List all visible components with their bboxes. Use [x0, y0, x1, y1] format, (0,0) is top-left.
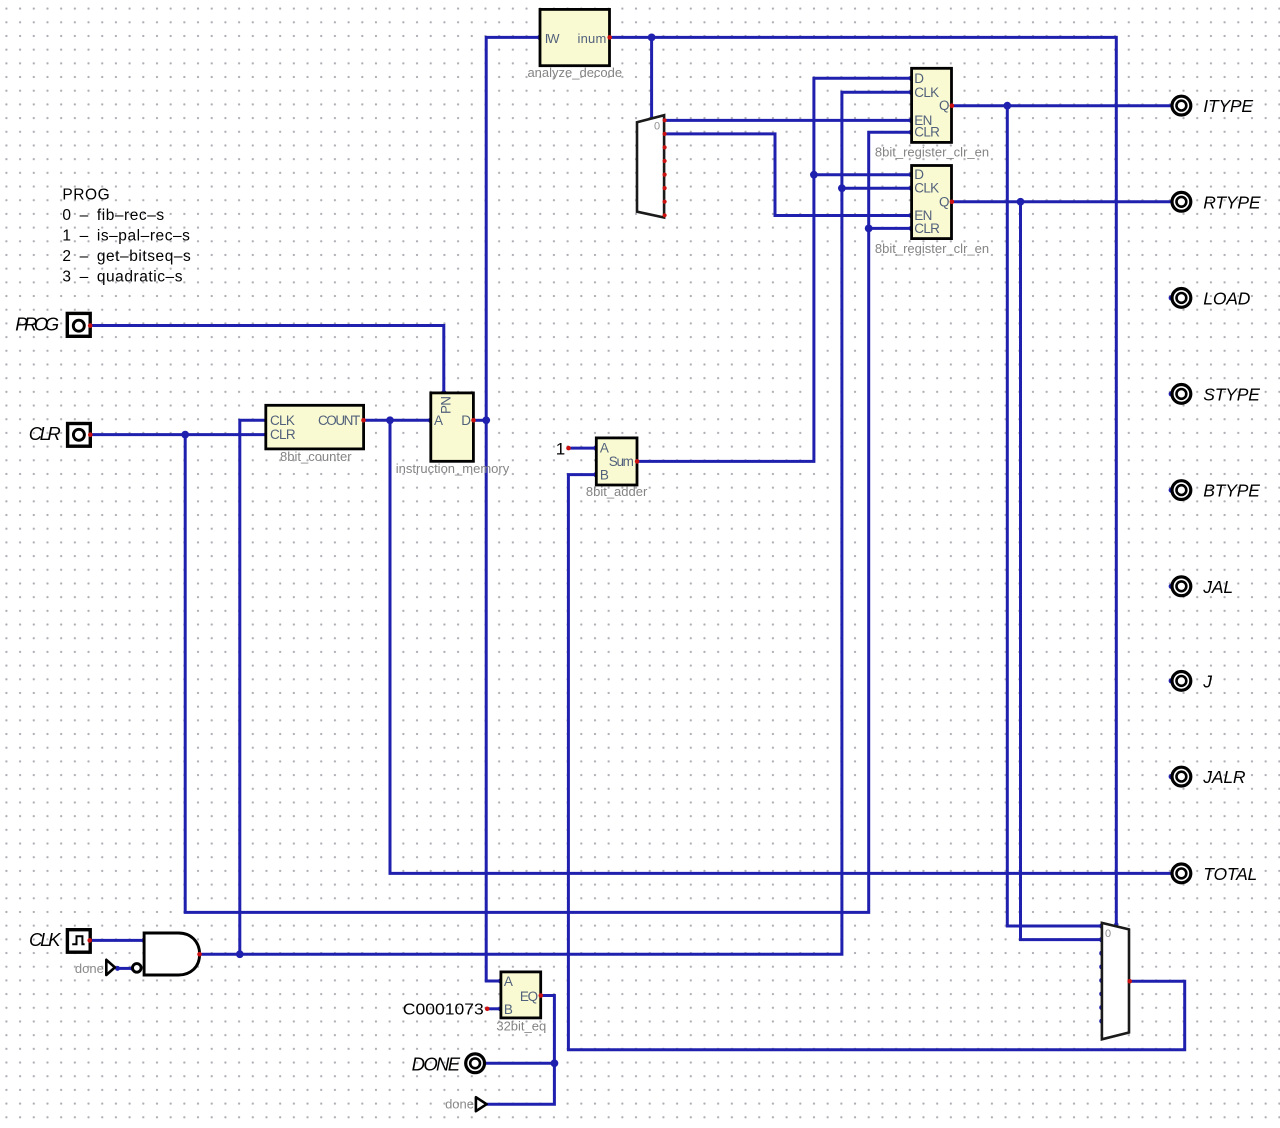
svg-text:RTYPE: RTYPE [1203, 192, 1261, 212]
svg-text:EQ: EQ [520, 989, 538, 1004]
svg-text:CLK: CLK [914, 181, 939, 196]
svg-text:JAL: JAL [1202, 577, 1233, 597]
svg-text:CLK: CLK [29, 929, 62, 950]
svg-text:J: J [1202, 671, 1212, 691]
svg-text:A: A [600, 441, 609, 456]
svg-text:LOAD: LOAD [1203, 288, 1250, 308]
svg-text:8bit_register_clr_en: 8bit_register_clr_en [875, 241, 989, 256]
svg-text:Sum: Sum [609, 454, 634, 469]
svg-text:PROG: PROG [62, 187, 110, 204]
svg-text:1: 1 [556, 439, 565, 458]
svg-text:3 – quadratic–s: 3 – quadratic–s [62, 269, 183, 286]
svg-text:STYPE: STYPE [1203, 384, 1260, 404]
svg-text:Q: Q [939, 194, 949, 209]
svg-text:C0001073: C0001073 [403, 1002, 484, 1019]
svg-text:32bit_eq: 32bit_eq [496, 1018, 546, 1033]
svg-text:8bit_counter: 8bit_counter [280, 449, 352, 464]
svg-text:inum: inum [578, 31, 607, 46]
svg-text:CLR: CLR [914, 125, 940, 140]
svg-text:8bit_register_clr_en: 8bit_register_clr_en [875, 145, 989, 160]
svg-text:COUNT: COUNT [318, 413, 360, 428]
svg-text:IW: IW [545, 31, 561, 46]
svg-text:CLK: CLK [270, 413, 295, 428]
svg-text:0: 0 [1105, 928, 1111, 940]
svg-text:D: D [461, 413, 471, 428]
svg-text:A: A [504, 974, 513, 989]
svg-text:JALR: JALR [1202, 767, 1246, 787]
svg-text:CLR: CLR [914, 221, 940, 236]
svg-text:A: A [434, 413, 443, 428]
svg-text:PROG: PROG [15, 314, 59, 335]
svg-text:CLR: CLR [29, 423, 61, 444]
svg-text:0: 0 [654, 120, 660, 132]
svg-text:1 – is–pal–rec–s: 1 – is–pal–rec–s [62, 227, 190, 244]
svg-text:TOTAL: TOTAL [1203, 864, 1257, 884]
svg-text:CLR: CLR [270, 427, 296, 442]
svg-text:BTYPE: BTYPE [1203, 481, 1260, 501]
svg-text:B: B [504, 1002, 513, 1017]
svg-text:0 – fib–rec–s: 0 – fib–rec–s [62, 207, 164, 224]
svg-text:B: B [600, 467, 609, 482]
svg-text:instruction_memory: instruction_memory [396, 461, 510, 476]
svg-text:Q: Q [939, 98, 949, 113]
svg-text:PN: PN [439, 397, 454, 414]
svg-text:DONE: DONE [412, 1053, 461, 1074]
svg-text:analyze_decode: analyze_decode [527, 65, 622, 80]
svg-text:8bit_adder: 8bit_adder [586, 484, 648, 499]
svg-text:CLK: CLK [914, 85, 939, 100]
svg-text:done: done [445, 1096, 474, 1111]
svg-text:done: done [75, 961, 104, 976]
svg-text:D: D [914, 71, 924, 86]
svg-text:ITYPE: ITYPE [1203, 96, 1253, 116]
svg-text:2 – get–bitseq–s: 2 – get–bitseq–s [62, 248, 191, 265]
